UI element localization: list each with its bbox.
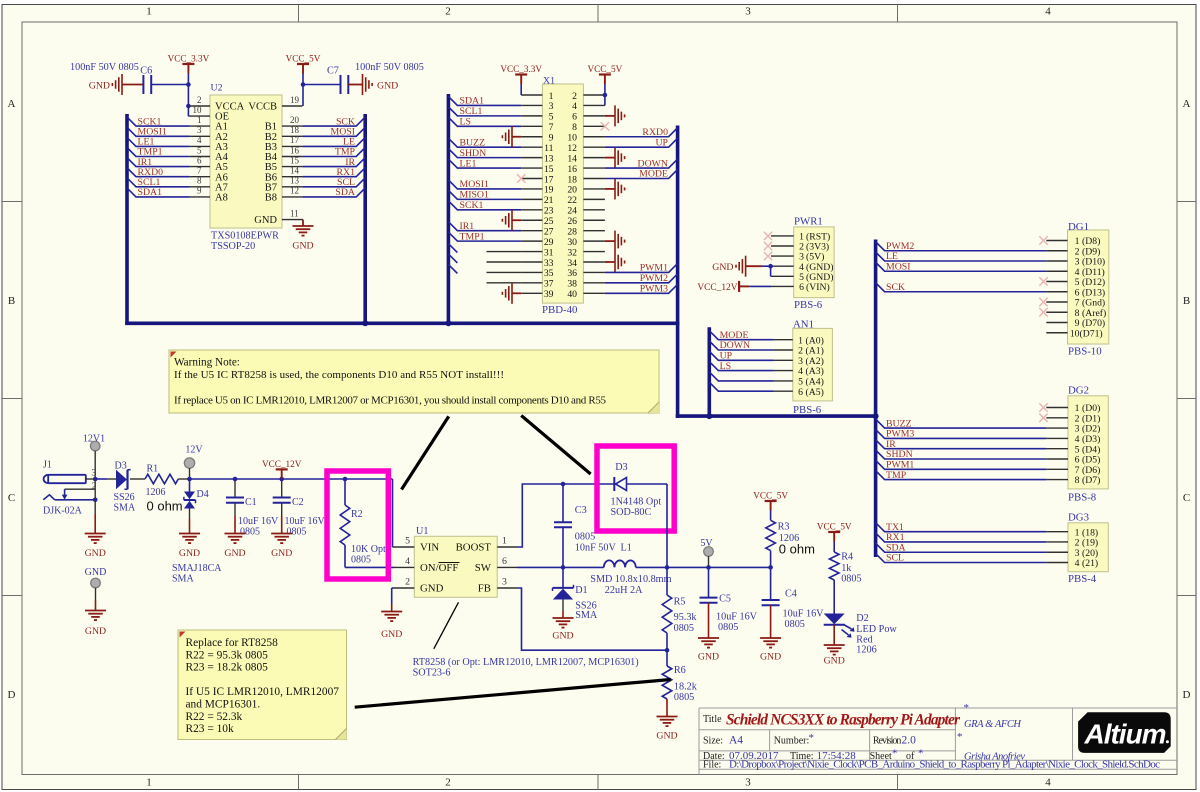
ground symbol at D4 — [179, 534, 200, 544]
DG1 pin 3 (D10) — [1046, 260, 1067, 262]
svg-text:1: 1 — [197, 115, 202, 125]
no-connect X at DG1 pin 7 — [1039, 298, 1047, 306]
svg-text:0 ohm: 0 ohm — [147, 499, 183, 514]
J1 switch contact — [43, 495, 55, 500]
X1 pin 18 stub — [583, 177, 605, 179]
X1 pin 24 stub — [583, 209, 605, 211]
svg-text:8: 8 — [197, 176, 202, 186]
svg-text:D:\Dropbox\Project\Nixie_Clock: D:\Dropbox\Project\Nixie_Clock\PCB_Ardui… — [729, 758, 1160, 770]
no-connect X at DG2 pin 2 — [1039, 414, 1047, 422]
svg-text:L1: L1 — [621, 542, 632, 553]
X1 pin 8 stub — [583, 125, 605, 127]
svg-text:LS: LS — [720, 361, 731, 372]
X1 pin 35 stub — [521, 271, 542, 273]
diode D1 SS26 — [562, 567, 564, 587]
svg-text:0805: 0805 — [287, 527, 307, 538]
X1 pin 20 stub — [583, 188, 605, 190]
svg-text:18.2k: 18.2k — [674, 682, 698, 693]
X1 pin 37 stub — [521, 282, 542, 284]
svg-text:GND: GND — [271, 548, 292, 559]
U2 pin 19 VCCB — [282, 105, 302, 107]
U1 pin 4 ON/OFF — [394, 566, 414, 568]
DG2 pin 1 (D0) — [1046, 407, 1068, 409]
svg-text:31: 31 — [544, 247, 554, 258]
X1 pin 28 stub — [583, 230, 605, 232]
svg-text:2.0: 2.0 — [902, 735, 917, 747]
svg-text:GND: GND — [656, 731, 677, 742]
capacitor C6 — [142, 75, 144, 94]
svg-text:22: 22 — [567, 195, 577, 206]
svg-text:9: 9 — [549, 133, 554, 144]
capacitor C3 — [562, 484, 564, 522]
X1 pin 14 stub — [583, 157, 605, 159]
svg-text:C4: C4 — [785, 589, 797, 600]
junction C3 top — [561, 482, 566, 487]
svg-text:GND: GND — [381, 629, 402, 640]
junction at U2 pin2 — [186, 104, 191, 109]
no-connect X at PWR1 pin 3 — [764, 252, 772, 260]
svg-text:1206: 1206 — [856, 644, 876, 655]
svg-text:VCC_12V: VCC_12V — [697, 283, 737, 293]
svg-text:GND: GND — [377, 80, 398, 91]
svg-text:PBS-6: PBS-6 — [794, 299, 823, 311]
svg-text:LED Pow: LED Pow — [856, 624, 897, 635]
svg-text:If replace U5 on IC LMR12010,: If replace U5 on IC LMR12010, LMR12007 o… — [174, 395, 607, 407]
svg-text:5: 5 — [405, 536, 410, 547]
X1 pin 2 stub — [583, 94, 605, 96]
X1 pin 17 stub — [521, 177, 542, 179]
junction SW/R5 — [665, 565, 670, 570]
PWR1 pin 2 (3V3) — [771, 245, 794, 247]
svg-text:14: 14 — [290, 166, 300, 176]
svg-text:2: 2 — [572, 91, 577, 102]
svg-text:100nF 50V 0805: 100nF 50V 0805 — [355, 62, 424, 73]
ground symbol at C5 — [698, 638, 719, 648]
svg-text:3: 3 — [745, 6, 751, 18]
X1 pin 23 stub — [521, 209, 542, 211]
inductor L1 — [604, 560, 636, 567]
svg-text:21: 21 — [544, 195, 554, 206]
svg-text:28: 28 — [567, 226, 577, 237]
resistor R6 — [662, 666, 672, 699]
resistor R1 — [145, 474, 178, 484]
U1 pin 6 SW — [497, 566, 517, 568]
svg-text:C: C — [8, 492, 15, 504]
U2 pin 3 A2 — [190, 135, 210, 137]
ground symbol at X1 pin 6 — [605, 115, 615, 117]
svg-text:R22 = 52.3k: R22 = 52.3k — [186, 711, 243, 723]
X1 pin 34 stub — [583, 261, 605, 263]
wire net MOSI from DG bus to DG1 — [876, 262, 1047, 271]
svg-text:SOD-80C: SOD-80C — [611, 507, 652, 518]
svg-text:GND: GND — [698, 652, 719, 663]
svg-text:3: 3 — [745, 777, 751, 789]
svg-text:PBD-40: PBD-40 — [542, 304, 577, 316]
svg-text:5: 5 — [549, 112, 554, 123]
wire net LE1 from left bus to U2 — [127, 137, 190, 146]
callout line replace-note to R6 — [355, 680, 671, 708]
ground symbol at X1 pin 25 — [512, 219, 521, 221]
DG1 pin 4 (D11) — [1046, 270, 1067, 272]
svg-text:35: 35 — [544, 268, 554, 279]
svg-text:3: 3 — [502, 577, 507, 588]
capacitor C5 — [708, 567, 710, 597]
junction AN1 bus — [706, 413, 712, 419]
wire net MODE from X1 to right bus — [605, 169, 678, 178]
svg-text:10: 10 — [1070, 328, 1080, 339]
wire net TMP1 from left bus to U2 — [127, 148, 190, 157]
X1 pin 3 stub — [521, 104, 542, 106]
svg-text:TSSOP-20: TSSOP-20 — [211, 241, 255, 252]
X1 pin 29 stub — [521, 240, 542, 242]
svg-text:R23 = 18.2k 0805: R23 = 18.2k 0805 — [186, 662, 269, 674]
power port VCC_5V at U2 — [297, 63, 309, 65]
svg-text:GND: GND — [224, 548, 245, 559]
ground symbol at U1 pin 2 — [381, 612, 402, 622]
connector DG1 body — [1068, 230, 1109, 344]
U2 pin 5 A4 — [190, 156, 210, 158]
svg-text:12: 12 — [290, 186, 299, 196]
svg-text:26: 26 — [567, 216, 577, 227]
svg-text:A: A — [8, 98, 16, 110]
wire AN1 pin 6 to bus — [709, 382, 773, 391]
DG2 pin 8 (D7) — [1046, 479, 1068, 481]
wire rail R1 to corner — [178, 478, 187, 480]
horizontal bus wire upper — [125, 321, 679, 325]
wire D1 to ground — [562, 600, 564, 612]
svg-text:(21): (21) — [1082, 558, 1098, 569]
svg-text:24: 24 — [567, 206, 577, 217]
svg-text:Schield NCS3XX to Raspberry Pi: Schield NCS3XX to Raspberry Pi Adapter — [726, 712, 961, 729]
power port VCC_5V at R3 — [765, 500, 777, 502]
svg-text:(VIN): (VIN) — [806, 282, 830, 293]
junction C2 — [279, 477, 284, 482]
horizontal bus wire lower — [676, 414, 876, 418]
svg-text:D3: D3 — [115, 461, 127, 472]
svg-text:*: * — [957, 731, 963, 743]
svg-text:34: 34 — [567, 258, 577, 269]
connector AN1 body — [793, 328, 833, 401]
svg-text:DOWN: DOWN — [638, 158, 668, 169]
wire net SDA1 from left bus to U2 — [127, 188, 190, 197]
U2 pin 7 A6 — [190, 176, 210, 178]
ground symbol at X1 pin 20 — [605, 188, 615, 190]
wire AN1 pin 2 to bus — [709, 341, 773, 350]
svg-text:VCC_5V: VCC_5V — [588, 64, 623, 74]
wire net RX1 from U2 to right bus — [302, 168, 365, 177]
svg-text:C2: C2 — [292, 497, 304, 508]
svg-text:PWR1: PWR1 — [794, 216, 823, 228]
bus entry — [448, 264, 457, 273]
DG3 pin 2 (19) — [1046, 541, 1068, 543]
op-amp U2 body — [210, 95, 282, 228]
junction VCC_5V/C7 — [301, 82, 306, 87]
svg-text:SDA1: SDA1 — [460, 96, 485, 107]
svg-text:GND: GND — [89, 81, 110, 92]
svg-text:U2: U2 — [211, 83, 223, 94]
wire AN1 pin 4 to bus — [709, 362, 773, 371]
wire FB to divider — [517, 588, 667, 650]
svg-text:VCC_3.3V: VCC_3.3V — [500, 64, 542, 74]
resistor R3 — [766, 520, 776, 550]
U2 pin 1 A1 — [190, 125, 210, 127]
svg-text:GND: GND — [292, 241, 313, 252]
svg-text:GND: GND — [824, 656, 845, 667]
no-connect X at X1 pin 17 — [517, 174, 525, 182]
svg-text:B: B — [1183, 295, 1190, 307]
svg-text:BUZZ: BUZZ — [460, 137, 486, 148]
U2 pin 6 A5 — [190, 166, 210, 168]
svg-text:ON/OFF: ON/OFF — [420, 562, 458, 574]
wire VCC_3.3V down to U2 pin2/OE — [187, 85, 189, 107]
svg-text:DG1: DG1 — [1068, 221, 1089, 233]
wire J1 pin2 to ground — [94, 479, 96, 514]
svg-text:PBS-8: PBS-8 — [1068, 492, 1096, 504]
svg-text:Replace for RT8258: Replace for RT8258 — [186, 637, 279, 649]
wire net RX1 from DG bus to DG3 — [876, 533, 1047, 542]
X1 pin 32 stub — [583, 251, 605, 253]
no-connect X at X1 pin 8 — [601, 122, 609, 130]
svg-text:4: 4 — [1075, 558, 1080, 569]
DG1 pin 10 (D71) — [1046, 332, 1067, 334]
highlight box around R2 — [327, 471, 388, 579]
svg-text:SW: SW — [475, 562, 492, 574]
svg-text:GND: GND — [85, 548, 106, 559]
bus entry — [448, 254, 457, 263]
svg-text:VCCB: VCCB — [248, 102, 277, 113]
wire AN1 pin 5 to bus — [709, 372, 773, 381]
AN1 pin 2 (A1) — [774, 349, 793, 351]
U2 pin 9 A8 — [190, 196, 210, 198]
wire net RXD0 from left bus to U2 — [127, 168, 190, 177]
svg-text:1N4148 Opt: 1N4148 Opt — [611, 497, 662, 508]
svg-text:D: D — [8, 689, 16, 701]
ground symbol at C2 — [271, 534, 292, 544]
svg-text:SMD 10.8x10.8mm: SMD 10.8x10.8mm — [590, 574, 671, 585]
wire 12V1 to rail — [94, 451, 96, 479]
ground symbol at X1 pin 9 — [512, 136, 521, 138]
bus wire of DG connectors — [874, 240, 878, 558]
svg-text:1206: 1206 — [146, 487, 166, 498]
svg-text:10uF 16V: 10uF 16V — [783, 609, 825, 620]
svg-text:MISO1: MISO1 — [460, 190, 489, 201]
X1 pin 19 stub — [521, 188, 542, 190]
no-connect X at DG1 pin 1 — [1039, 236, 1047, 244]
AN1 pin 1 (A0) — [774, 339, 793, 341]
AN1 pin 3 (A2) — [774, 359, 793, 361]
DG2 pin 4 (D3) — [1046, 437, 1068, 439]
svg-text:R1: R1 — [147, 464, 159, 475]
svg-text:Title: Title — [703, 714, 722, 725]
U1 pin 1 BOOST — [497, 546, 517, 548]
svg-text:U1: U1 — [416, 526, 428, 537]
connector J1 barrel jack — [48, 475, 86, 483]
X1 pin 30 stub — [583, 240, 605, 242]
svg-text:GND: GND — [179, 548, 200, 559]
wire net SDA from DG bus to DG3 — [876, 543, 1047, 552]
svg-text:18: 18 — [290, 125, 300, 135]
junction FB/R5/R6 — [665, 648, 670, 653]
wire C6 to VCC_3.3V — [151, 84, 188, 86]
svg-text:100nF 50V 0805: 100nF 50V 0805 — [70, 62, 139, 73]
wire net TMP1 from bus to X1 — [448, 232, 521, 241]
wire L1 to R3 node — [636, 566, 771, 568]
svg-text:and MCP16301.: and MCP16301. — [186, 699, 261, 711]
U1 pin 3 FB — [497, 587, 517, 589]
svg-text:R5: R5 — [674, 597, 686, 608]
svg-text:7: 7 — [549, 122, 554, 133]
PWR1 pin 1 (RST) — [771, 235, 794, 237]
wire net SHDN from DG bus to DG2 — [876, 450, 1047, 459]
op-amp U1 body — [414, 536, 497, 597]
svg-text:38: 38 — [567, 279, 577, 290]
resistor R4 — [829, 552, 839, 580]
ground symbol at PWR1 — [746, 265, 762, 267]
svg-text:20: 20 — [290, 115, 300, 125]
svg-text:Warning Note:: Warning Note: — [174, 357, 240, 369]
wire bus left of X1 — [447, 94, 451, 324]
junction 5V/C5 — [706, 565, 711, 570]
ground symbol at J1 — [85, 534, 106, 544]
svg-text:SDA1: SDA1 — [138, 187, 163, 198]
wire net PWM1 from X1 to right bus — [605, 263, 678, 272]
DG3 pin 3 (20) — [1046, 551, 1068, 553]
U2 pin 8 A7 — [190, 186, 210, 188]
svg-text:39: 39 — [544, 289, 554, 300]
X1 pin 39 stub — [521, 292, 542, 294]
svg-text:D3: D3 — [615, 462, 627, 473]
AN1 pin 6 (A5) — [774, 390, 793, 392]
svg-text:8: 8 — [1075, 475, 1080, 486]
svg-text:LS: LS — [460, 117, 471, 128]
wire net LE from U2 to right bus — [302, 137, 365, 146]
svg-text:LE1: LE1 — [460, 158, 477, 169]
wire net SCK from DG bus to DG1 — [876, 283, 1047, 292]
X1 pin 10 stub — [583, 136, 605, 138]
X1 pin 9 stub — [521, 136, 542, 138]
svg-text:40: 40 — [567, 289, 577, 300]
svg-text:FB: FB — [478, 583, 491, 595]
no-connect X at PWR1 pin 2 — [764, 242, 772, 250]
wire net SCK1 from left bus to U2 — [127, 117, 190, 126]
svg-text:(D7): (D7) — [1082, 475, 1100, 486]
diode D4 TVS SMAJ18CA — [189, 479, 191, 492]
capacitor C2 — [281, 479, 283, 498]
wire AN1 pin 1 to bus — [709, 331, 773, 340]
power port VCC_3.3V at U2 — [182, 63, 194, 65]
svg-text:5: 5 — [197, 145, 202, 155]
svg-text:D4: D4 — [197, 489, 209, 500]
svg-text:12V: 12V — [185, 445, 203, 456]
svg-text:R2: R2 — [351, 509, 363, 520]
wire net LE1 from bus to X1 — [448, 159, 521, 168]
title block frame — [699, 707, 1177, 709]
svg-text:VCC_5V: VCC_5V — [753, 490, 788, 500]
svg-text:GND: GND — [85, 567, 107, 578]
LED D2 — [824, 614, 845, 625]
wire net RXD0 from X1 to right bus — [605, 128, 678, 137]
svg-text:SMA: SMA — [172, 574, 194, 585]
wire rail corner down to U1 VIN — [392, 479, 394, 547]
wire VCC_5V to X1 pin4 — [604, 95, 606, 105]
svg-text:DG2: DG2 — [1068, 385, 1089, 397]
svg-text:23: 23 — [544, 206, 554, 217]
svg-text:17: 17 — [290, 135, 300, 145]
power port VCC_12V at PWR1 pin6 — [738, 281, 740, 292]
svg-text:6: 6 — [572, 112, 577, 123]
svg-text:10: 10 — [193, 105, 203, 115]
wire net PWM3 from X1 to right bus — [605, 284, 678, 293]
capacitor C4 — [770, 567, 772, 600]
svg-text:27: 27 — [544, 226, 554, 237]
svg-text:1: 1 — [146, 777, 152, 789]
wire rail J1 to D3 — [95, 478, 107, 480]
power port VCC_5V at R4 — [828, 531, 840, 533]
svg-text:C3: C3 — [575, 505, 587, 516]
ground symbol at D1 — [553, 618, 574, 628]
svg-text:33: 33 — [544, 258, 554, 269]
svg-text:6: 6 — [798, 387, 803, 398]
svg-text:0805: 0805 — [351, 555, 371, 566]
wire net MOSI from U2 to right bus — [302, 127, 365, 136]
svg-text:10nF 50V: 10nF 50V — [575, 542, 617, 553]
wire bus left of U2 — [125, 114, 129, 324]
ground symbol at U2 pin 11 — [301, 219, 304, 221]
U2 pin 14 B6 — [282, 176, 302, 178]
svg-text:16: 16 — [290, 145, 300, 155]
highlight box around D3 — [597, 446, 674, 531]
wire net LS from bus to X1 — [448, 117, 521, 126]
DG2 pin 2 (D1) — [1046, 417, 1068, 419]
no-connect X at DG1 pin 8 — [1039, 308, 1047, 316]
no-connect X at DG2 pin 1 — [1039, 403, 1047, 411]
svg-text:0805: 0805 — [240, 527, 260, 538]
wire stub X1 pin 31 — [487, 251, 522, 253]
svg-text:6: 6 — [502, 556, 507, 567]
wire net IR1 from bus to X1 — [448, 222, 521, 231]
ground symbol at X1 pin 14 — [605, 157, 615, 159]
diode D3 1N4148 — [613, 477, 615, 491]
power port VCC_12V — [276, 468, 288, 470]
replace note — [178, 630, 347, 740]
svg-text:IR1: IR1 — [460, 221, 475, 232]
svg-text:1k: 1k — [841, 563, 852, 574]
svg-text:4: 4 — [1045, 777, 1051, 789]
svg-text:SDA: SDA — [335, 187, 355, 198]
svg-text:0805: 0805 — [674, 692, 694, 703]
X1 pin 25 stub — [521, 219, 542, 221]
svg-text:VCC_5V: VCC_5V — [817, 521, 852, 531]
svg-text:TMP: TMP — [886, 470, 907, 481]
svg-text:SHDN: SHDN — [460, 148, 487, 159]
svg-text:0805: 0805 — [841, 574, 861, 585]
DG1 pin 9 (D70) — [1046, 322, 1067, 324]
svg-text:*: * — [964, 702, 970, 714]
svg-text:B: B — [8, 295, 15, 307]
svg-text:10uF 16V: 10uF 16V — [716, 612, 758, 623]
svg-text:1: 1 — [549, 91, 554, 102]
svg-text:If the U5 IC RT8258 is used, t: If the U5 IC RT8258 is used, the compone… — [174, 369, 504, 381]
svg-text:PWM2: PWM2 — [640, 273, 668, 284]
X1 pin 11 stub — [521, 146, 542, 148]
svg-text:C: C — [1183, 492, 1190, 504]
svg-text:X1: X1 — [543, 76, 555, 87]
svg-text:If U5 IC LMR12010, LMR12007: If U5 IC LMR12010, LMR12007 — [186, 686, 340, 698]
svg-text:D: D — [1183, 689, 1191, 701]
U2 pin 10 OE — [190, 115, 210, 117]
svg-text:20: 20 — [567, 185, 577, 196]
svg-text:(A5): (A5) — [806, 387, 824, 398]
